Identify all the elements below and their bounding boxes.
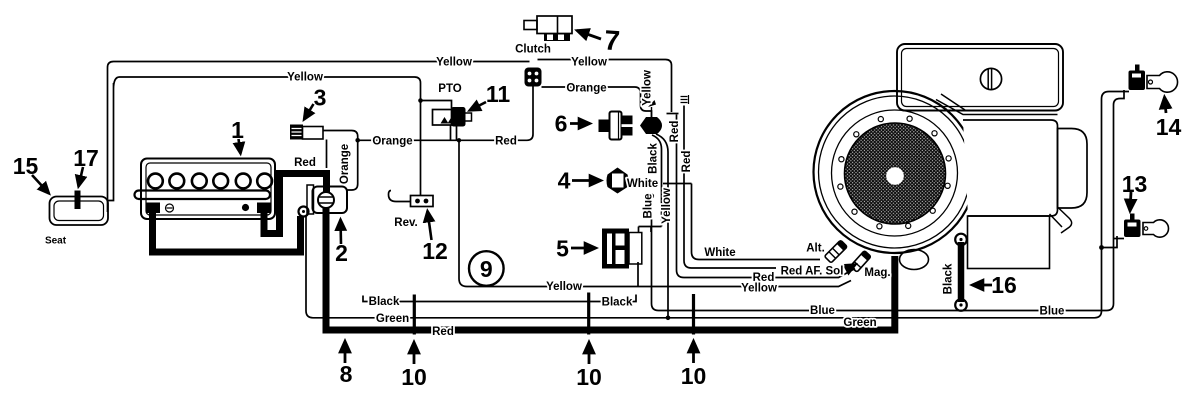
clutch 7 body [524, 21, 537, 30]
wire: blue branch into lamp 13 socket [1114, 238, 1125, 240]
solenoid 2 body [307, 185, 314, 214]
clutch connector [525, 68, 542, 87]
svg-text:17: 17 [73, 145, 99, 171]
svg-text:Yellow: Yellow [571, 57, 607, 69]
svg-text:Orange: Orange [372, 136, 412, 148]
svg-text:Green: Green [376, 313, 409, 325]
wire: connector junction tick 10b [587, 293, 590, 335]
svg-text:16: 16 [991, 272, 1017, 298]
svg-text:Yellow: Yellow [287, 72, 323, 84]
svg-text:6: 6 [555, 111, 568, 137]
wire: red vertical and run to magneto plug [677, 115, 856, 278]
svg-text:Red: Red [294, 157, 316, 169]
svg-text:Green: Green [843, 317, 876, 329]
wire: yellow tick at bundle top [667, 113, 679, 115]
wire: fuse lead down to solenoid input [326, 140, 328, 169]
engine fuel tank [897, 44, 1063, 111]
node: junction lamp 13 branch [1099, 245, 1104, 250]
svg-text:Seat: Seat [45, 236, 67, 247]
circled label 9 [469, 251, 504, 286]
node: junction red/orange line [457, 138, 461, 142]
svg-text:Yellow: Yellow [546, 281, 582, 293]
wire: branch to lamp 13 socket bottom [1102, 236, 1118, 248]
wire: blue from switch to rear lights riser [649, 193, 654, 198]
fuse holder 3 [290, 125, 303, 140]
svg-text:Rev.: Rev. [394, 217, 417, 229]
wire: vertical from ignition connector to green junction [656, 134, 668, 318]
cowling slope lines [936, 94, 1058, 115]
svg-text:4: 4 [558, 168, 571, 194]
screen hub [886, 167, 904, 185]
battery ledge [135, 191, 271, 200]
svg-text:Blue: Blue [643, 194, 655, 219]
headlamp 13 socket [1124, 220, 1141, 238]
wire: orange from fuse to solenoid vertical [323, 131, 358, 191]
muffler [1058, 129, 1088, 209]
svg-text:7: 7 [603, 24, 621, 56]
fuel cap [980, 68, 1001, 89]
alternator plug [824, 240, 847, 263]
svg-text:Black: Black [369, 296, 400, 308]
retainer bolts [838, 116, 951, 229]
svg-text:3: 3 [314, 85, 327, 111]
svg-text:Red AF. Sol: Red AF. Sol [781, 266, 844, 278]
svg-text:White: White [627, 178, 658, 190]
node: junction on green run [666, 316, 671, 321]
wire: white vertical and run to alternator plug [692, 184, 821, 260]
wire: connector junction tick 10a [413, 295, 416, 335]
svg-text:9: 9 [480, 256, 493, 282]
node: junction on PTO vertical [418, 98, 423, 103]
svg-text:Clutch: Clutch [515, 44, 551, 56]
svg-text:Orange: Orange [339, 144, 351, 184]
headlamp 14 bulb [1147, 72, 1178, 92]
battery 1 case [141, 159, 275, 220]
seat switch 15 bracket [50, 197, 109, 226]
wire: PTO switch lower legs [451, 126, 457, 141]
svg-text:White: White [704, 247, 735, 259]
wire: black from ignition connector to interlock module [639, 135, 662, 232]
wire: yellow outer run seat to clutch [108, 62, 530, 213]
wire: yellow bottom run PTO to magneto [459, 140, 851, 286]
svg-text:Yellow: Yellow [741, 283, 777, 295]
headlamp 14 socket [1135, 65, 1140, 72]
ground strap 16 [958, 242, 965, 302]
wire: green run to lights riser [306, 92, 1129, 318]
battery cells [148, 174, 272, 189]
battery positive dot [242, 204, 249, 211]
wire: yellow run clutch to right bundle [538, 60, 672, 113]
svg-text:Yellow: Yellow [642, 70, 654, 106]
seat switch plunger 17 [75, 191, 81, 210]
svg-text:10: 10 [576, 364, 602, 390]
wire: white tick from switch area into bundle [663, 183, 692, 185]
svg-text:1: 1 [231, 117, 244, 143]
screen retainer ring [832, 110, 958, 236]
wire: yellow inner run seat to PTO vertical [108, 77, 421, 201]
svg-text:Alt.: Alt. [806, 243, 825, 255]
crankcase oval [900, 250, 929, 270]
svg-text:10: 10 [681, 363, 707, 389]
svg-text:13: 13 [1122, 171, 1148, 197]
svg-text:Blue: Blue [1040, 306, 1065, 318]
wire: black thin run [363, 295, 636, 302]
svg-text:12: 12 [422, 238, 448, 264]
battery negative terminal [146, 203, 160, 214]
wire: orange horizontal / red to clutch connector [358, 87, 533, 141]
wire: branch to PTO switch top [421, 101, 452, 109]
ignition harness connector [640, 117, 662, 134]
interlock module 5 [602, 229, 629, 269]
svg-text:Red: Red [495, 136, 517, 148]
wire: orange from clutch connector to ignition connector [542, 87, 652, 117]
magneto plug [850, 251, 871, 273]
engine base [968, 216, 1050, 269]
wire: battery positive red cable to solenoid [264, 174, 327, 234]
svg-text:Black: Black [648, 143, 660, 174]
wire: thick red starter cable solenoid to engine (bottom run) [326, 208, 895, 330]
seat safety switch 4 [607, 168, 629, 194]
exhaust detail [1050, 207, 1072, 233]
wire: vertical from interlock module to yellow run [637, 262, 639, 287]
rotating screen mesh [845, 123, 946, 224]
blower housing inner ring [819, 96, 971, 248]
solenoid 2 ground ring [299, 207, 309, 217]
svg-text:Yellow: Yellow [661, 188, 673, 224]
svg-text:Mag.: Mag. [864, 267, 890, 279]
blower housing outer [814, 91, 976, 253]
svg-text:8: 8 [340, 361, 353, 387]
svg-text:15: 15 [13, 153, 39, 179]
node: junction orange branch [355, 138, 360, 143]
battery positive terminal [257, 203, 271, 214]
reverse switch 12 [389, 191, 412, 202]
svg-text:Red: Red [681, 151, 693, 173]
svg-text:14: 14 [1156, 114, 1182, 140]
svg-text:10: 10 [401, 364, 427, 390]
svg-text:PTO: PTO [438, 83, 461, 95]
ignition switch 6 [599, 120, 611, 133]
battery negative symbol [166, 204, 174, 212]
headlamp 13 bulb [1143, 220, 1169, 237]
svg-text:5: 5 [556, 236, 569, 262]
engine block [963, 120, 1058, 216]
svg-text:Black: Black [602, 297, 633, 309]
connector terminal glyph [681, 95, 689, 104]
wire: battery negative black cable to solenoid ground [153, 211, 301, 252]
svg-text:Yellow: Yellow [436, 57, 472, 69]
svg-text:Orange: Orange [566, 83, 606, 95]
wire: AF sol arrow lead [846, 265, 856, 270]
svg-text:Blue: Blue [810, 305, 835, 317]
svg-text:Red: Red [669, 121, 681, 143]
svg-text:11: 11 [486, 81, 511, 107]
svg-text:Red: Red [432, 326, 454, 338]
wire: connector junction tick 10c [692, 294, 695, 335]
wire: red vertical and run to AF solenoid [684, 106, 776, 269]
svg-text:Black: Black [943, 263, 955, 294]
